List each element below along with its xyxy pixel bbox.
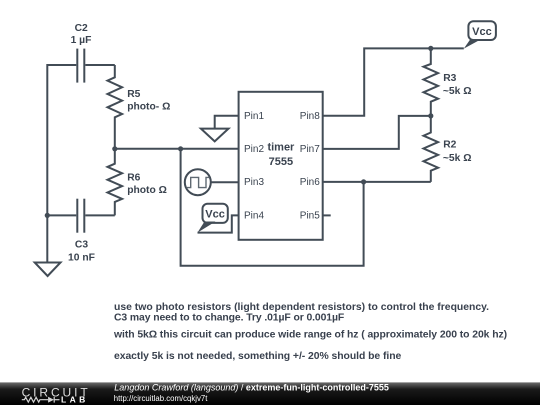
junction node C3 left rail: [45, 213, 50, 218]
IC U1 timer 7555 body: [239, 92, 323, 240]
logo resistor and diode glyph: [22, 397, 60, 403]
svg-text:Pin8: Pin8: [300, 111, 320, 122]
svg-text:~5k Ω: ~5k Ω: [443, 153, 472, 164]
svg-text:photo Ω: photo Ω: [127, 185, 167, 196]
resistor R6: [108, 149, 123, 216]
svg-text:C2: C2: [75, 23, 88, 34]
svg-text:R5: R5: [127, 89, 140, 100]
svg-text:~5k Ω: ~5k Ω: [443, 86, 472, 97]
svg-text:Pin4: Pin4: [244, 211, 264, 222]
svg-text:1 µF: 1 µF: [71, 35, 92, 46]
square wave source V1: [185, 169, 211, 195]
footer credit text: [114, 383, 389, 404]
Vcc bubble top right: [464, 21, 496, 48]
svg-text:photo- Ω: photo- Ω: [127, 102, 170, 113]
svg-text:Vcc: Vcc: [205, 209, 225, 221]
wire Pin4 to Vcc tail: [198, 215, 239, 232]
Vcc bubble at Pin4: [198, 204, 228, 233]
wire R6 bottom to C3 right plate: [85, 214, 115, 216]
svg-text:R6: R6: [127, 173, 140, 184]
ground symbol at Pin1: [201, 129, 229, 142]
svg-text:Pin2: Pin2: [244, 144, 264, 155]
CircuitLab logo wordmark: [22, 385, 91, 404]
svg-text:Langdon Crawford (langsound) /: Langdon Crawford (langsound) / extreme-f…: [114, 383, 389, 393]
wire R2 bottom to Pin6: [323, 181, 431, 183]
resistor R3: [424, 48, 439, 116]
resistor R5: [108, 65, 123, 149]
footer bar: [0, 382, 540, 405]
svg-text:Pin1: Pin1: [244, 111, 264, 122]
wire Pin5 stub: [323, 214, 331, 216]
svg-text:timer: timer: [267, 141, 295, 153]
svg-text:Pin7: Pin7: [300, 144, 320, 155]
junction node loop at Pin2 row: [178, 146, 183, 151]
wire left rail from C2 left plate down to ground: [47, 65, 76, 263]
svg-text:LAB: LAB: [61, 394, 89, 404]
wire Pin8 up and right to Vcc: [323, 48, 464, 115]
svg-text:10 nF: 10 nF: [68, 252, 95, 263]
junction node R3/R2: [428, 113, 433, 118]
capacitor C3: [77, 199, 84, 233]
svg-text:http://circuitlab.com/cqkjv7t: http://circuitlab.com/cqkjv7t: [114, 394, 208, 403]
wire loop Pin2 node under IC to Pin6 node: [181, 149, 364, 266]
svg-text:R3: R3: [443, 73, 456, 84]
svg-text:C3: C3: [75, 239, 88, 250]
wire C2 right plate to R5 top: [85, 64, 115, 66]
svg-text:Pin6: Pin6: [300, 177, 320, 188]
svg-text:Vcc: Vcc: [472, 26, 492, 38]
svg-text:C3 may need to to change. Try: C3 may need to to change. Try .01µF or 0…: [114, 312, 344, 323]
capacitor C2: [77, 49, 84, 83]
wire trigger row Pin2: [115, 148, 239, 150]
svg-text:exactly 5k is not needed, some: exactly 5k is not needed, something +/- …: [114, 351, 402, 362]
svg-text:R2: R2: [443, 140, 456, 151]
ground symbol left: [35, 263, 61, 277]
svg-text:with 5kΩ this circuit can prod: with 5kΩ this circuit can produce wide r…: [113, 329, 507, 340]
wire V1 to Pin3: [211, 181, 239, 183]
svg-text:Pin5: Pin5: [300, 211, 320, 222]
wire Pin7 to node between R3 R2: [323, 116, 431, 149]
svg-text:Pin3: Pin3: [244, 177, 264, 188]
junction node R5/R6/Pin2: [112, 146, 117, 151]
svg-text:7555: 7555: [269, 156, 293, 168]
resistor R2: [424, 116, 439, 182]
wire C3 left plate to left rail: [47, 214, 76, 216]
junction node Vcc top: [428, 46, 433, 51]
junction node Pin6 row: [361, 179, 366, 184]
wire Pin1 to ground: [215, 116, 239, 129]
